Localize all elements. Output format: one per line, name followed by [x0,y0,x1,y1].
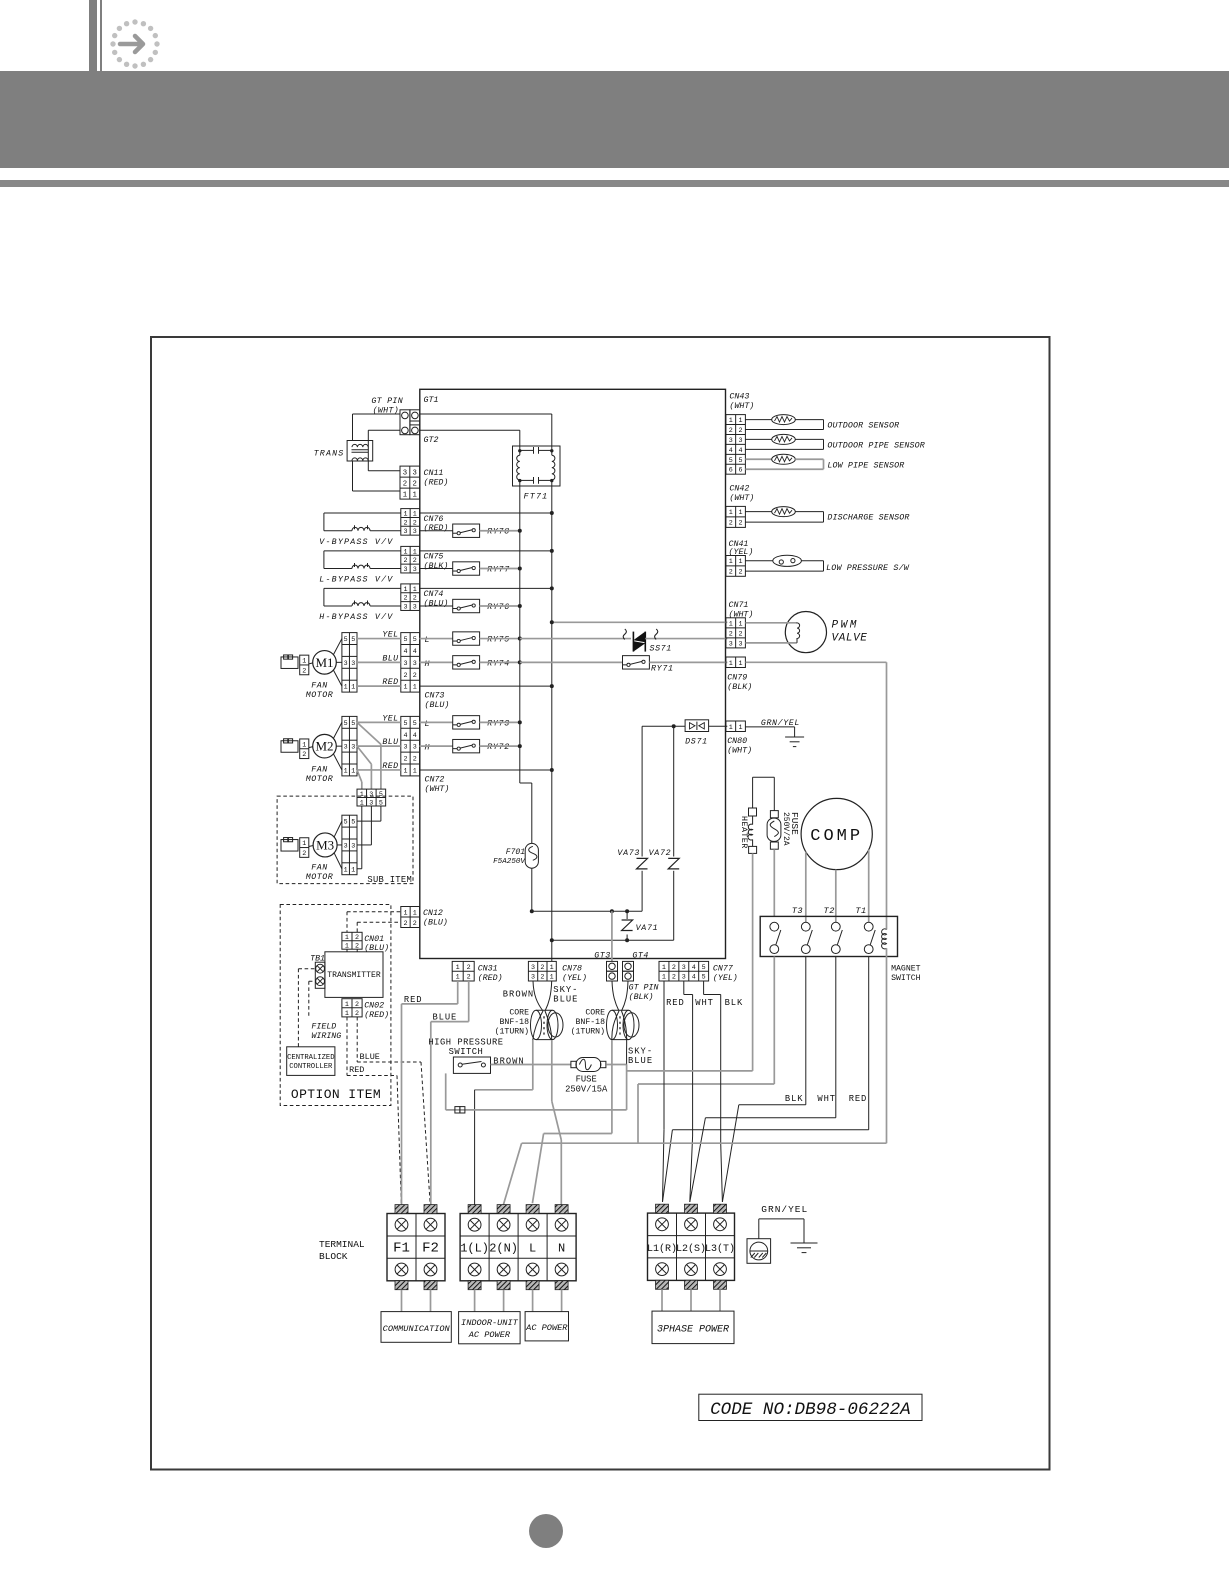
svg-text:4: 4 [413,648,417,656]
svg-text:CN72: CN72 [425,776,445,785]
svg-text:2: 2 [413,920,417,928]
svg-text:5: 5 [344,819,348,827]
svg-text:T2: T2 [824,906,835,916]
svg-text:(RED): (RED) [424,478,449,488]
svg-text:CN80: CN80 [727,737,747,746]
svg-text:(BLU): (BLU) [424,598,449,608]
svg-text:CN42: CN42 [729,484,749,493]
svg-text:MAGNET: MAGNET [891,965,921,974]
svg-text:1: 1 [456,974,460,982]
svg-text:1: 1 [302,658,306,666]
svg-text:1: 1 [739,509,743,517]
svg-text:H-BYPASS V/V: H-BYPASS V/V [319,612,393,622]
svg-text:OUTDOOR SENSOR: OUTDOOR SENSOR [827,422,899,431]
svg-text:CN73: CN73 [425,692,445,701]
svg-text:2: 2 [413,480,417,488]
svg-text:SUB ITEM: SUB ITEM [367,875,412,885]
svg-text:SS71: SS71 [650,645,672,654]
svg-text:3: 3 [729,437,733,445]
svg-text:1: 1 [351,866,355,874]
svg-text:3: 3 [369,791,373,799]
svg-text:SWITCH: SWITCH [449,1047,484,1057]
svg-text:1: 1 [550,964,554,972]
svg-text:MOTOR: MOTOR [306,873,333,882]
svg-text:3: 3 [344,744,348,752]
svg-text:1: 1 [729,417,733,425]
svg-text:RY76: RY76 [487,603,510,612]
svg-text:2(N): 2(N) [489,1242,518,1256]
svg-text:L3(T): L3(T) [705,1243,735,1255]
svg-text:2: 2 [467,964,471,972]
svg-text:1: 1 [662,974,666,982]
svg-text:2: 2 [413,756,417,764]
svg-text:3: 3 [413,744,417,752]
svg-text:3: 3 [403,469,407,477]
svg-text:1: 1 [302,741,306,749]
svg-text:1: 1 [344,866,348,874]
svg-text:RY75: RY75 [487,636,510,645]
svg-text:RY74: RY74 [487,659,510,668]
svg-text:5: 5 [344,636,348,644]
svg-text:OUTDOOR PIPE SENSOR: OUTDOOR PIPE SENSOR [827,441,924,450]
svg-text:(WHT): (WHT) [727,746,752,756]
svg-text:2: 2 [729,569,733,577]
svg-text:(WHT): (WHT) [425,784,450,794]
svg-text:2: 2 [672,964,676,972]
svg-text:N: N [558,1242,565,1256]
svg-text:(BLK): (BLK) [629,992,654,1002]
svg-text:3: 3 [739,640,743,648]
svg-text:CN74: CN74 [424,590,444,599]
svg-text:CN43: CN43 [729,393,749,402]
svg-text:SKY-: SKY- [628,1047,653,1057]
svg-text:5: 5 [413,636,417,644]
svg-text:2: 2 [355,934,359,942]
svg-text:1: 1 [413,586,417,594]
svg-text:F701: F701 [506,848,525,857]
svg-text:1: 1 [413,684,417,692]
svg-text:5: 5 [702,964,706,972]
svg-text:3: 3 [403,744,407,752]
svg-text:1: 1 [344,767,348,775]
svg-text:GT PIN: GT PIN [629,984,659,993]
svg-text:LOW PIPE SENSOR: LOW PIPE SENSOR [827,461,904,470]
svg-text:RY77: RY77 [487,566,510,575]
svg-text:5: 5 [729,457,733,465]
svg-text:GT3: GT3 [594,951,610,960]
svg-text:GT1: GT1 [424,396,439,405]
svg-text:(WHT): (WHT) [729,493,754,503]
svg-text:VALVE: VALVE [832,633,868,645]
svg-text:2: 2 [355,1010,359,1018]
svg-text:CN01: CN01 [364,935,384,944]
svg-text:F5A250V: F5A250V [493,858,526,866]
svg-text:2: 2 [413,672,417,680]
svg-text:L: L [529,1242,536,1256]
svg-text:L1(R): L1(R) [647,1243,677,1255]
svg-text:5: 5 [739,457,743,465]
svg-text:HEATER: HEATER [739,816,748,849]
svg-text:MOTOR: MOTOR [306,691,333,700]
svg-text:T3: T3 [792,906,803,916]
svg-text:M2: M2 [315,739,333,754]
svg-text:250V/15A: 250V/15A [565,1084,608,1094]
svg-text:VA73: VA73 [617,849,640,858]
svg-text:6: 6 [739,467,743,475]
svg-text:L: L [425,636,430,645]
svg-text:T1: T1 [855,906,866,916]
svg-text:3: 3 [531,974,535,982]
svg-text:2: 2 [302,667,306,675]
svg-text:1: 1 [729,660,733,668]
svg-text:CN71: CN71 [729,601,749,610]
svg-text:3: 3 [403,604,407,612]
svg-text:4: 4 [692,974,696,982]
svg-text:1: 1 [403,767,407,775]
svg-text:1: 1 [739,660,743,668]
svg-text:2: 2 [729,520,733,528]
svg-text:2: 2 [467,974,471,982]
svg-text:GRN/YEL: GRN/YEL [761,1204,808,1215]
svg-text:1: 1 [351,767,355,775]
svg-text:CONTROLLER: CONTROLLER [289,1063,333,1071]
svg-text:3: 3 [344,660,348,668]
svg-text:(RED): (RED) [478,973,503,983]
svg-text:BNF-18: BNF-18 [576,1018,606,1027]
svg-text:CORE: CORE [509,1009,529,1018]
svg-text:3: 3 [413,660,417,668]
svg-text:MOTOR: MOTOR [306,775,333,784]
svg-text:1: 1 [729,620,733,628]
svg-text:3: 3 [344,842,348,850]
svg-text:CN02: CN02 [364,1002,384,1011]
svg-text:SWITCH: SWITCH [891,974,921,983]
svg-text:1: 1 [729,558,733,566]
svg-text:250V/2A: 250V/2A [781,812,790,846]
svg-text:(BLK): (BLK) [727,682,752,692]
svg-text:2: 2 [403,672,407,680]
svg-text:H: H [425,660,430,669]
svg-text:1: 1 [345,1001,349,1009]
svg-text:BLUE: BLUE [360,1052,380,1062]
svg-text:5: 5 [403,636,407,644]
svg-text:HIGH PRESSURE: HIGH PRESSURE [428,1038,503,1048]
svg-text:RED: RED [382,678,398,687]
svg-text:4: 4 [403,648,407,656]
svg-text:1: 1 [413,909,417,917]
svg-text:1: 1 [413,511,417,519]
svg-text:1: 1 [351,684,355,692]
svg-text:3: 3 [413,528,417,536]
svg-text:1: 1 [403,548,407,556]
svg-text:TRANSMITTER: TRANSMITTER [327,971,381,980]
svg-text:L-BYPASS V/V: L-BYPASS V/V [319,575,393,585]
svg-text:(WHT): (WHT) [729,401,754,411]
svg-text:2: 2 [413,595,417,603]
svg-text:4: 4 [413,732,417,740]
svg-text:6: 6 [729,467,733,475]
svg-text:3: 3 [729,640,733,648]
svg-text:BLOCK: BLOCK [319,1251,348,1262]
svg-text:BNF-18: BNF-18 [500,1018,530,1027]
svg-text:(1TURN): (1TURN) [571,1027,605,1037]
svg-text:3: 3 [739,437,743,445]
svg-text:1: 1 [403,491,408,499]
svg-text:1: 1 [413,767,417,775]
svg-text:1: 1 [739,558,743,566]
svg-text:BROWN: BROWN [503,989,534,999]
svg-text:5: 5 [413,720,417,728]
svg-text:(BLK): (BLK) [424,561,449,571]
svg-text:2: 2 [403,920,407,928]
svg-text:RED: RED [404,995,423,1005]
svg-text:4: 4 [692,964,696,972]
svg-text:2: 2 [413,557,417,565]
svg-text:1: 1 [302,840,306,848]
svg-text:3: 3 [531,964,535,972]
svg-text:2: 2 [302,850,306,858]
svg-text:3: 3 [682,964,686,972]
svg-text:WHT: WHT [695,998,714,1008]
svg-text:BLK: BLK [725,998,744,1008]
svg-text:GT2: GT2 [424,436,439,445]
svg-text:1(L): 1(L) [460,1242,489,1256]
svg-text:1: 1 [403,511,407,519]
svg-text:5: 5 [344,720,348,728]
svg-text:3: 3 [413,469,417,477]
svg-text:1: 1 [662,964,666,972]
svg-text:TRANS: TRANS [314,449,345,458]
svg-text:FT71: FT71 [524,492,549,502]
svg-text:2: 2 [739,520,743,528]
svg-text:1: 1 [739,724,743,732]
svg-text:2: 2 [739,427,743,435]
svg-text:5: 5 [351,720,355,728]
svg-text:1: 1 [550,974,554,982]
svg-text:BLK: BLK [785,1094,804,1104]
svg-text:CORE: CORE [585,1009,605,1018]
svg-text:CN11: CN11 [424,469,444,478]
svg-text:CODE NO:DB98-06222A: CODE NO:DB98-06222A [710,1400,911,1420]
svg-text:2: 2 [540,964,544,972]
svg-text:VA71: VA71 [636,924,659,933]
svg-text:1: 1 [403,684,407,692]
svg-text:CN78: CN78 [562,964,582,973]
svg-text:3: 3 [682,974,686,982]
svg-text:2: 2 [672,974,676,982]
svg-text:H: H [425,744,430,753]
svg-text:FIELD: FIELD [311,1023,336,1032]
svg-text:VA72: VA72 [649,849,672,858]
svg-text:5: 5 [351,819,355,827]
svg-text:(YEL): (YEL) [562,973,587,983]
svg-text:3: 3 [403,528,407,536]
svg-text:1: 1 [729,724,733,732]
svg-text:F2: F2 [422,1241,439,1257]
svg-text:RED: RED [849,1094,868,1104]
svg-text:3: 3 [413,566,417,574]
svg-text:M1: M1 [315,655,333,670]
svg-text:2: 2 [540,974,544,982]
svg-text:(1TURN): (1TURN) [495,1027,529,1037]
svg-text:1: 1 [345,934,349,942]
svg-text:RED: RED [349,1065,364,1075]
svg-text:CN31: CN31 [478,964,498,973]
svg-text:DS71: DS71 [685,738,708,747]
svg-text:AC POWER: AC POWER [468,1330,511,1340]
svg-text:1: 1 [403,909,407,917]
svg-text:DISCHARGE SENSOR: DISCHARGE SENSOR [827,514,909,523]
svg-text:BLU: BLU [382,654,399,663]
svg-text:(RED): (RED) [364,1010,389,1020]
svg-text:CN75: CN75 [424,553,444,562]
svg-text:V-BYPASS V/V: V-BYPASS V/V [319,537,393,547]
svg-text:CN76: CN76 [424,515,444,524]
svg-text:YEL: YEL [382,714,398,723]
svg-text:RY73: RY73 [487,719,510,728]
svg-text:(YEL): (YEL) [713,973,738,983]
svg-text:5: 5 [379,791,383,799]
svg-text:2: 2 [403,557,407,565]
svg-text:L: L [425,720,430,729]
svg-text:RED: RED [666,998,685,1008]
svg-text:1: 1 [360,791,364,799]
svg-text:3: 3 [351,842,355,850]
svg-text:1: 1 [739,620,743,628]
svg-text:CN77: CN77 [713,964,733,973]
svg-text:WIRING: WIRING [311,1032,341,1041]
svg-text:LOW PRESSURE S/W: LOW PRESSURE S/W [826,563,910,573]
svg-text:3: 3 [351,660,355,668]
svg-text:2: 2 [729,630,733,638]
svg-text:1: 1 [739,417,743,425]
svg-text:BLUE: BLUE [553,995,578,1005]
svg-text:PWM: PWM [832,620,859,632]
svg-text:1: 1 [413,548,417,556]
svg-text:2: 2 [739,630,743,638]
svg-text:F1: F1 [393,1241,410,1257]
svg-text:OPTION ITEM: OPTION ITEM [291,1087,381,1102]
svg-text:4: 4 [403,732,407,740]
svg-text:2: 2 [739,569,743,577]
svg-text:RY78: RY78 [487,528,510,537]
svg-text:FAN: FAN [311,863,327,872]
svg-text:CN79: CN79 [727,674,747,683]
svg-text:4: 4 [729,447,733,455]
svg-text:WHT: WHT [817,1094,836,1104]
svg-text:L2(S): L2(S) [676,1243,706,1255]
svg-text:AC POWER: AC POWER [525,1323,568,1333]
svg-text:BLUE: BLUE [433,1013,458,1023]
svg-text:M3: M3 [316,837,334,852]
svg-text:1: 1 [345,1010,349,1018]
svg-text:CN12: CN12 [423,909,443,918]
svg-text:INDOOR-UNIT: INDOOR-UNIT [461,1318,519,1328]
svg-text:2: 2 [729,427,733,435]
svg-text:2: 2 [302,751,306,759]
svg-text:TERMINAL: TERMINAL [319,1239,365,1250]
svg-text:3: 3 [351,744,355,752]
svg-text:1: 1 [413,491,418,499]
svg-text:FUSE: FUSE [576,1075,597,1085]
svg-text:3: 3 [403,660,407,668]
svg-text:1: 1 [456,964,460,972]
svg-text:3: 3 [413,604,417,612]
svg-text:FAN: FAN [311,682,327,691]
svg-text:2: 2 [403,519,407,527]
svg-text:2: 2 [403,756,407,764]
svg-text:BLU: BLU [382,738,399,747]
svg-text:4: 4 [739,447,743,455]
svg-text:(RED): (RED) [424,523,449,533]
svg-text:RY71: RY71 [651,665,674,674]
svg-text:(BLU): (BLU) [425,700,450,710]
svg-text:CENTRALIZED: CENTRALIZED [287,1054,334,1062]
svg-text:5: 5 [351,636,355,644]
svg-text:2: 2 [403,480,407,488]
svg-text:GT PIN: GT PIN [371,397,403,406]
svg-text:1: 1 [729,509,733,517]
svg-text:2: 2 [413,519,417,527]
svg-text:SKY-: SKY- [553,985,578,995]
svg-text:FAN: FAN [311,765,327,774]
svg-text:1: 1 [403,586,407,594]
svg-text:3: 3 [403,566,407,574]
svg-text:5: 5 [702,974,706,982]
svg-text:2: 2 [403,595,407,603]
svg-text:(BLU): (BLU) [423,918,448,928]
svg-text:BLUE: BLUE [628,1056,653,1066]
svg-text:2: 2 [355,1001,359,1009]
svg-text:1: 1 [344,684,348,692]
svg-text:COMMUNICATION: COMMUNICATION [383,1324,451,1334]
svg-text:COMP: COMP [810,827,863,846]
svg-text:RED: RED [382,762,398,771]
svg-text:GT4: GT4 [632,951,648,960]
svg-text:YEL: YEL [382,631,398,640]
svg-text:3PHASE POWER: 3PHASE POWER [657,1324,729,1335]
svg-text:5: 5 [403,720,407,728]
svg-text:RY72: RY72 [487,743,510,752]
